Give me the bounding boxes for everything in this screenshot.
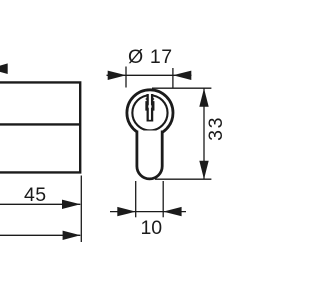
diameter dimension line [107, 74, 192, 76]
overall dimension line [0, 234, 80, 236]
length arrowhead [62, 200, 80, 209]
overall dimension arrowhead [63, 231, 81, 240]
keyhole [145, 94, 154, 122]
height top extension line [152, 87, 211, 89]
svg-text:10: 10 [140, 217, 162, 239]
height dimension line [203, 89, 205, 180]
svg-text:Ø 17: Ø 17 [128, 46, 173, 68]
svg-text:45: 45 [24, 184, 47, 206]
diameter right extension line [172, 68, 174, 88]
width dimension line [110, 211, 186, 213]
diameter left arrowhead [108, 71, 126, 80]
length extension line [80, 176, 82, 243]
height bottom arrowhead [199, 161, 208, 179]
diameter right arrowhead [173, 71, 191, 80]
width right extension line [162, 181, 164, 217]
width right arrowhead [163, 207, 181, 216]
length dimension line [0, 203, 80, 205]
side view middle line [0, 123, 80, 125]
width left arrowhead [117, 207, 135, 216]
height bottom extension line [155, 178, 211, 180]
cylinder face outer circle [127, 90, 173, 136]
diameter left extension line [125, 67, 127, 88]
width left extension line [135, 181, 137, 217]
svg-text:33: 33 [205, 116, 227, 141]
cylinder body outline [137, 131, 162, 179]
cylinder face inner circle [132, 95, 167, 130]
cylinder side view outline [0, 82, 80, 172]
cropped left dimension arrowhead [0, 63, 8, 74]
height top arrowhead [199, 88, 208, 106]
